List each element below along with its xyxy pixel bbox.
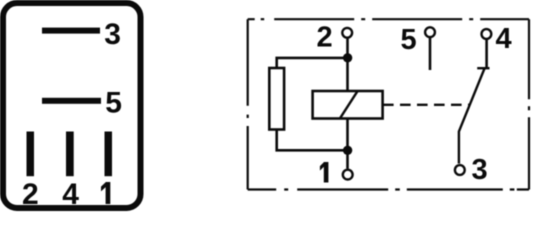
svg-text:5: 5	[401, 24, 417, 56]
svg-text:5: 5	[105, 87, 122, 120]
svg-text:2: 2	[22, 178, 39, 211]
label 1 (housing)	[101, 182, 110, 204]
terminal slot 2	[27, 132, 35, 177]
mechanical linkage (dashed)	[383, 104, 471, 106]
label 1 (schematic)	[320, 162, 329, 183]
pin 1 terminal circle	[343, 170, 353, 180]
wire: coil bottom to junction B	[346, 118, 349, 152]
pin 2 terminal circle	[342, 28, 352, 38]
wire: pin2 down to coil	[346, 38, 349, 91]
wire: resistor bottom to junction B	[277, 130, 348, 151]
junction A	[343, 53, 352, 62]
fixed contact tick	[477, 67, 489, 69]
svg-text:3: 3	[104, 18, 121, 51]
terminal slot 5	[42, 98, 101, 104]
wire: pin5 stub	[429, 38, 432, 70]
enclosure boundary left (dash-dot)	[247, 19, 249, 189]
enclosure boundary top (dash-dot)	[248, 18, 529, 20]
pin 3 terminal circle	[455, 165, 465, 175]
relay coil K1 body	[313, 91, 383, 119]
relay housing outline	[3, 3, 141, 208]
terminal slot 1	[105, 132, 113, 177]
svg-text:2: 2	[317, 22, 333, 54]
switch blade	[459, 69, 485, 164]
enclosure boundary right (dash-dot)	[528, 19, 530, 189]
wire: pin4 down to contact	[485, 40, 488, 69]
junction B	[343, 146, 352, 155]
wire: junction B to pin1	[346, 150, 349, 168]
pin 5 terminal circle	[425, 27, 435, 37]
wire: junction A to resistor top	[277, 58, 348, 69]
svg-text:4: 4	[62, 178, 79, 211]
svg-text:3: 3	[472, 154, 488, 186]
relay coil diagonal	[340, 91, 358, 118]
resistor (parallel)	[269, 68, 284, 130]
svg-text:4: 4	[496, 23, 512, 55]
enclosure boundary bottom (dash-dot)	[248, 188, 529, 190]
terminal slot 4	[66, 132, 74, 177]
pin 4 terminal circle	[482, 29, 492, 39]
terminal slot 3	[42, 28, 100, 34]
